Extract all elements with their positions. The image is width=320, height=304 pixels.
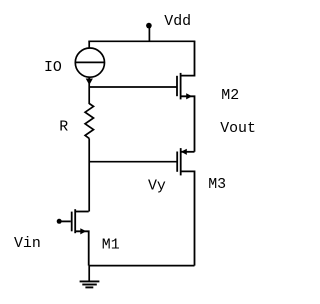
svg-text:Vdd: Vdd (164, 14, 191, 30)
svg-text:R: R (59, 120, 68, 136)
svg-text:Vy: Vy (148, 179, 166, 195)
svg-text:IO: IO (44, 60, 62, 76)
svg-text:M1: M1 (102, 237, 120, 253)
svg-text:M2: M2 (221, 88, 239, 104)
svg-text:Vin: Vin (14, 236, 41, 252)
svg-text:Vout: Vout (220, 121, 256, 137)
svg-text:M3: M3 (208, 177, 226, 193)
